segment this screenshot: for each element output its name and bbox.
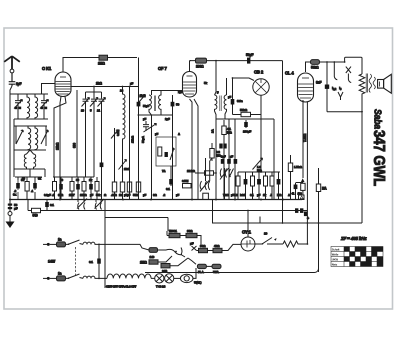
thermal cutout cluster xyxy=(292,178,306,199)
svg-text:17kΩ: 17kΩ xyxy=(131,135,135,143)
wire stub heater hook xyxy=(334,62,337,80)
svg-text:11kΩ: 11kΩ xyxy=(56,142,60,150)
resistor 30 xyxy=(197,244,214,253)
output transformer primary xyxy=(369,74,371,92)
svg-text:2μF: 2μF xyxy=(221,155,226,159)
fuse B xyxy=(50,272,66,281)
resistor 0.5M lower xyxy=(182,179,191,188)
tube CF7 xyxy=(183,72,197,98)
dial lamp 1 xyxy=(155,274,164,283)
bus L1 xyxy=(28,210,296,212)
wire column x114.5 xyxy=(114,128,116,182)
svg-text:CL 4: CL 4 xyxy=(285,71,294,76)
capacitor 50uF CF7 xyxy=(171,95,180,200)
capacitor 3.3nF xyxy=(231,99,243,115)
contact V arrow xyxy=(338,92,343,100)
svg-text:C K1: C K1 xyxy=(42,66,52,71)
resistor row r1 xyxy=(236,176,240,200)
capacitor X tone xyxy=(346,67,351,83)
resistor lower x122.5 xyxy=(120,182,124,192)
wire CB2 diode left xyxy=(233,78,255,99)
variable inductor arrow right xyxy=(41,126,48,146)
svg-text:1.5kΩ: 1.5kΩ xyxy=(294,165,302,169)
capacitor 0.1 lower xyxy=(166,166,173,191)
svg-text:50μA: 50μA xyxy=(141,135,145,143)
resistor lower x129.5 xyxy=(127,182,131,192)
svg-text:HSO1: HSO1 xyxy=(169,229,177,233)
trimmer arrow anode xyxy=(139,95,146,103)
resistor zigzag output xyxy=(359,74,365,96)
resistor 1.5k xyxy=(288,155,302,200)
wire row3 bottom xyxy=(27,169,34,177)
resistor zigzag mains xyxy=(283,241,307,247)
wire CK1 anode top xyxy=(63,58,99,73)
wire CF7 cathode xyxy=(190,99,193,200)
dial lamp 2 xyxy=(156,274,174,289)
capacitor mid2 xyxy=(76,181,80,200)
bus junction dots xyxy=(9,199,284,201)
resistor 30b xyxy=(186,229,201,247)
wire cathode CK1 xyxy=(60,97,61,200)
resistor TA xyxy=(197,264,212,274)
trimmer capacitor 5pF xyxy=(90,92,98,177)
resistor UFA xyxy=(212,264,221,274)
mains terminal B xyxy=(43,277,47,279)
svg-text:CY 1: CY 1 xyxy=(242,230,252,235)
IF transformer T1 primary xyxy=(149,95,152,200)
capacitor mains 0.1 xyxy=(89,244,101,280)
svg-text:600: 600 xyxy=(73,143,77,148)
svg-text:30Ω: 30Ω xyxy=(187,229,193,233)
wire CF7 grid xyxy=(152,91,183,96)
svg-text:1pF: 1pF xyxy=(16,82,22,86)
IF transformer T2 primary xyxy=(215,95,217,200)
coil L5a xyxy=(24,150,30,169)
svg-text:Schalt: Schalt xyxy=(332,248,340,252)
capacitor row r2 xyxy=(244,176,248,200)
svg-text:U(AL): U(AL) xyxy=(194,281,202,285)
coil L2 xyxy=(35,94,38,119)
resistor 4.1M xyxy=(222,120,233,200)
svg-text:7.2Ω: 7.2Ω xyxy=(223,193,230,197)
value labels lower mid row xyxy=(96,193,138,197)
svg-text:CF 7: CF 7 xyxy=(158,66,167,71)
svg-text:μF: μF xyxy=(14,207,18,211)
fuse A xyxy=(50,238,66,247)
capacitor 0.1 under bus xyxy=(45,200,54,211)
svg-text:FLA: FLA xyxy=(198,270,204,274)
svg-text:MΩ: MΩ xyxy=(227,131,232,135)
capacitor knot xyxy=(192,246,197,251)
junction CL4 cathode mains xyxy=(307,243,309,245)
svg-text:μF: μF xyxy=(230,155,234,159)
svg-text:14W: 14W xyxy=(48,260,56,264)
bus L2 xyxy=(105,217,168,219)
svg-text:Welle: Welle xyxy=(332,253,339,257)
svg-text:2μF: 2μF xyxy=(178,90,183,94)
variable inductor arrow left xyxy=(16,126,23,144)
wire to regulator xyxy=(174,277,181,279)
svg-text:μF: μF xyxy=(127,193,131,197)
resistor 1M row xyxy=(140,260,161,265)
svg-text:7.1kΩ: 7.1kΩ xyxy=(303,133,307,142)
coil L1 xyxy=(27,94,30,119)
trimmer arrow T1 xyxy=(144,124,157,133)
wire CY1 top feed xyxy=(247,211,249,238)
ganged switch link xyxy=(75,247,77,275)
wire line 120 xyxy=(216,119,274,200)
wire block bottom xyxy=(14,119,45,177)
svg-text:1MΩ: 1MΩ xyxy=(140,261,147,265)
capacitor pair mid xyxy=(219,144,226,149)
svg-text:30T: 30T xyxy=(70,193,75,197)
wire rail y172 xyxy=(238,172,280,176)
svg-text:2μF: 2μF xyxy=(165,117,170,121)
capacitor row r7 xyxy=(277,176,281,200)
wire CB2 cathode xyxy=(260,95,262,172)
wire long left drop xyxy=(104,200,106,289)
svg-text:8.1: 8.1 xyxy=(250,193,254,197)
wire L2 drop xyxy=(167,218,169,232)
sub box AVC xyxy=(156,137,176,166)
trimmer capacitor 16pF xyxy=(82,92,90,177)
resistor row r3 xyxy=(251,176,255,200)
capacitor row r4 xyxy=(257,176,261,200)
IF transformer T2 core xyxy=(220,96,221,112)
switch hooks under CF7 xyxy=(200,181,210,192)
main bus chassis xyxy=(10,199,302,201)
svg-text:Δ: Δ xyxy=(178,132,180,136)
capacitor mid1 xyxy=(59,181,63,200)
svg-text:2kΩ: 2kΩ xyxy=(96,82,102,86)
wire left rail xyxy=(10,86,12,200)
resistor 53k xyxy=(233,108,262,117)
svg-text:240: 240 xyxy=(162,270,167,274)
svg-text:+: + xyxy=(307,217,309,221)
power box bottom edge xyxy=(145,268,319,273)
svg-text:3x: 3x xyxy=(13,193,17,197)
output transformer secondary xyxy=(373,77,375,89)
svg-text:53kΩ: 53kΩ xyxy=(240,108,248,112)
urdox regulator xyxy=(180,268,201,285)
coil RF choke x122.5 xyxy=(123,87,126,200)
capacitor in box xyxy=(165,152,168,157)
tube CL4 xyxy=(298,73,314,102)
wire CK1 pin2 xyxy=(54,97,66,178)
svg-text:µF: µF xyxy=(124,193,128,197)
resistor mid3 xyxy=(82,182,86,200)
svg-text:Netz: Netz xyxy=(332,263,338,267)
resistor 12k xyxy=(187,169,217,175)
resistor 50k anode xyxy=(311,60,345,70)
svg-text:µF: µF xyxy=(90,193,94,197)
svg-text:CBU CF7 CF7+CL4 CF7: CBU CF7 CF7+CL4 CF7 xyxy=(106,285,137,289)
svg-text:3nF: 3nF xyxy=(316,81,322,85)
svg-text:UFA: UFA xyxy=(213,270,220,274)
value labels left block bottom xyxy=(14,177,290,197)
voltage table xyxy=(331,247,383,267)
wire component feeds mid xyxy=(53,177,97,181)
svg-text:µF: µF xyxy=(143,117,147,121)
resistor mid4 xyxy=(95,182,99,200)
output transformer core xyxy=(366,74,367,93)
output block frame xyxy=(345,57,362,74)
resistor 0.2M xyxy=(210,143,222,161)
resistor row r6 xyxy=(270,176,274,200)
svg-text:50µF: 50µF xyxy=(246,53,253,57)
svg-text:7.2: 7.2 xyxy=(234,193,238,197)
resistor lower x114.5 xyxy=(112,182,116,192)
wire row1 bottom xyxy=(14,110,48,119)
svg-text:CB 2: CB 2 xyxy=(254,70,264,75)
svg-text:12 kΩ: 12 kΩ xyxy=(187,169,195,173)
tube CY1 xyxy=(241,237,255,251)
wire T2 top feed xyxy=(215,61,217,95)
capacitor block1 xyxy=(17,180,19,200)
wire stub 260 xyxy=(259,217,261,224)
trimmer capacitor T1 bottom xyxy=(143,121,152,131)
wire block top xyxy=(10,93,48,95)
band switch contacts upper xyxy=(220,168,229,180)
coil L3 xyxy=(28,126,31,150)
resistor row r5 xyxy=(264,176,268,200)
capacitor triple row xyxy=(221,119,237,200)
svg-text:540: 540 xyxy=(33,214,38,218)
wire CL4 pin aux xyxy=(302,100,304,178)
coil L4 xyxy=(35,126,38,150)
svg-text:MΩ: MΩ xyxy=(216,154,221,158)
capacitor 3nF xyxy=(316,61,329,112)
capacitor 53uF ground xyxy=(8,200,18,212)
ground xyxy=(6,212,15,229)
svg-text:100µF: 100µF xyxy=(243,130,251,134)
variable arrow x114.5 xyxy=(111,130,118,139)
svg-text:µF: µF xyxy=(143,193,147,197)
resistor R1 anode xyxy=(98,55,137,65)
wire 600 xyxy=(76,90,78,177)
svg-text:50μF: 50μF xyxy=(143,104,150,108)
wire transformer bottom xyxy=(361,96,363,224)
wire CL4 cathode xyxy=(306,102,308,245)
svg-text:50k: 50k xyxy=(96,193,101,197)
coil L5b xyxy=(30,150,36,169)
wire row2 top xyxy=(14,125,47,127)
resistor block1 xyxy=(25,177,29,200)
wire L1 left riser xyxy=(27,200,29,211)
electrolytic caps pair xyxy=(295,208,309,220)
svg-text:µF: µF xyxy=(228,95,232,99)
tube CK1 xyxy=(55,72,71,97)
svg-text:1MΩ: 1MΩ xyxy=(98,62,105,66)
capacitor antenna xyxy=(9,73,22,86)
svg-text:50kΩ: 50kΩ xyxy=(311,66,319,70)
svg-text:0.1: 0.1 xyxy=(50,203,54,207)
svg-text:1a: 1a xyxy=(58,238,62,242)
svg-text:0.5M: 0.5M xyxy=(182,179,189,183)
svg-text:100Ω: 100Ω xyxy=(80,193,87,197)
svg-text:T 60 24: T 60 24 xyxy=(156,285,166,289)
svg-text:µF: µF xyxy=(231,193,235,197)
svg-text:Saba: Saba xyxy=(372,109,384,129)
resistor mid2 xyxy=(70,182,74,200)
svg-text:140: 140 xyxy=(150,255,155,259)
speaker LS xyxy=(378,74,392,93)
capacitor mid3 xyxy=(89,181,93,200)
IF transformer T2 secondary xyxy=(224,95,226,119)
wire T1 bottom rail xyxy=(138,114,173,116)
switch A xyxy=(66,240,84,244)
wire column x138.5 xyxy=(138,58,140,200)
wire row2 to boxes xyxy=(188,258,196,264)
capacitor blob on trimmer line xyxy=(100,163,104,168)
value labels upper mid xyxy=(120,81,232,173)
wire CF7 pin aux xyxy=(194,99,198,200)
resistor 540 xyxy=(32,208,41,217)
svg-text:Δ: Δ xyxy=(288,193,290,197)
svg-text:μF: μF xyxy=(190,242,194,246)
svg-text:0.5M: 0.5M xyxy=(116,129,120,136)
svg-text:0.1: 0.1 xyxy=(166,187,170,191)
svg-text:180Ω: 180Ω xyxy=(196,65,204,69)
svg-text:50Ω: 50Ω xyxy=(133,193,139,197)
rotary switch knot xyxy=(161,248,185,263)
fuse mains2 xyxy=(149,248,166,259)
capacitor 100uF xyxy=(243,120,251,134)
svg-text:µF: µF xyxy=(130,82,134,86)
svg-text:UKW: UKW xyxy=(332,258,339,262)
wire column x129.5 xyxy=(129,87,131,200)
antenna xyxy=(4,56,20,73)
heater chain scallops xyxy=(107,274,155,278)
trimmer capacitor right top xyxy=(40,94,49,110)
resistor 240 xyxy=(161,258,188,274)
svg-text:6kΩ: 6kΩ xyxy=(58,193,64,197)
resistor lower x138.5 xyxy=(136,182,140,192)
IF transformer T1 secondary xyxy=(159,90,161,115)
trimmer 1.2M arrow xyxy=(253,158,263,170)
trimmer capacitor left top xyxy=(14,94,23,110)
svg-text:347 GWL: 347 GWL xyxy=(370,130,387,186)
svg-text:µF: µF xyxy=(155,132,159,136)
wire HSO riser xyxy=(166,231,168,236)
wire bar 111 xyxy=(327,111,362,113)
svg-text:0.2μF: 0.2μF xyxy=(44,193,51,197)
trimmer dark marks xyxy=(15,107,48,110)
wire speaker return xyxy=(212,222,362,224)
svg-text:µF: µF xyxy=(176,193,180,197)
wire component feeds left xyxy=(15,177,42,180)
wire trimmer riser xyxy=(86,87,102,93)
resistor mid1 xyxy=(53,177,57,200)
wire CL4 anode xyxy=(306,62,311,72)
resistor HSO1 xyxy=(167,229,186,238)
svg-text:0.1: 0.1 xyxy=(89,260,93,264)
resistor 40 xyxy=(213,244,241,253)
resistor NA xyxy=(316,168,327,272)
svg-text:10: 10 xyxy=(264,232,268,236)
svg-text:50: 50 xyxy=(176,103,180,107)
svg-text:1a: 1a xyxy=(58,272,62,276)
resistor in box xyxy=(158,147,162,156)
capacitor blob on anode drop xyxy=(137,102,141,107)
capacitor block2 xyxy=(34,180,36,200)
capacitor 50uF coupling xyxy=(246,53,253,64)
wire T2 sec top xyxy=(226,78,228,95)
switch box on bus xyxy=(203,193,209,199)
wire screen 2k xyxy=(71,86,139,88)
coil mains B xyxy=(83,276,107,278)
switch hooks wave left xyxy=(77,199,104,210)
band switch wires down xyxy=(206,158,225,223)
variable arrow choke xyxy=(119,160,127,170)
IF transformer T1 core xyxy=(154,96,155,112)
switch hook mid xyxy=(229,169,234,178)
switch B xyxy=(66,274,84,278)
svg-text:μF: μF xyxy=(257,193,261,197)
arrow in box xyxy=(170,148,174,160)
coil mains A xyxy=(83,242,149,250)
tube CB2 xyxy=(253,79,269,95)
resistor R2 anode CF7 xyxy=(190,58,283,68)
svg-text:3.3n: 3.3n xyxy=(237,99,243,103)
wire row2 bottom xyxy=(14,149,46,151)
svg-text:40Ω: 40Ω xyxy=(214,244,220,248)
svg-text:7Δ: 7Δ xyxy=(162,169,165,173)
wire CK1 grid left xyxy=(42,84,56,95)
wire top right drop xyxy=(282,61,284,223)
svg-text:ZF = 485 kHz: ZF = 485 kHz xyxy=(340,236,367,241)
wire CF7 anode xyxy=(190,61,192,72)
mains terminal A xyxy=(43,243,47,245)
trimmer capacitor 21pF xyxy=(98,92,106,200)
switch 10 xyxy=(255,232,283,245)
